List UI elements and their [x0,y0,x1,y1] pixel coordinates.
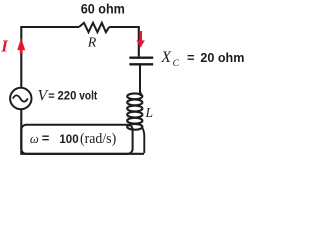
wire left vertical upper [20,26,22,88]
svg-text:ω: ω [30,132,39,146]
AC source V [10,88,31,109]
svg-text:220: 220 [58,89,77,103]
wire bottom [20,153,144,155]
svg-text:=: = [48,91,54,103]
svg-text:=: = [42,131,50,146]
wire top-right segment [109,26,139,28]
wire left vertical lower [20,109,22,154]
svg-text:V: V [38,88,49,105]
svg-text:100: 100 [59,134,78,146]
wire capacitor to inductor [139,65,141,93]
wire inductor to bottom [142,127,145,153]
inductor L [127,92,142,130]
svg-text:C: C [173,59,180,69]
svg-text:=: = [187,50,195,65]
arrow into capacitor (red, downward) [136,31,144,48]
label box around omega [21,125,132,154]
svg-text:R: R [87,36,97,51]
resistor R [79,23,109,32]
svg-text:volt: volt [79,89,97,103]
svg-text:(rad/s): (rad/s) [80,131,116,147]
svg-text:L: L [145,105,154,120]
capacitor C (Xc) [129,58,153,65]
svg-text:X: X [160,49,172,66]
svg-text:20 ohm: 20 ohm [200,50,244,65]
wire right vertical to capacitor [138,26,140,56]
svg-text:60 ohm: 60 ohm [81,2,125,17]
current arrow I (red, upward) [17,38,25,54]
wire top-left segment [21,26,79,28]
